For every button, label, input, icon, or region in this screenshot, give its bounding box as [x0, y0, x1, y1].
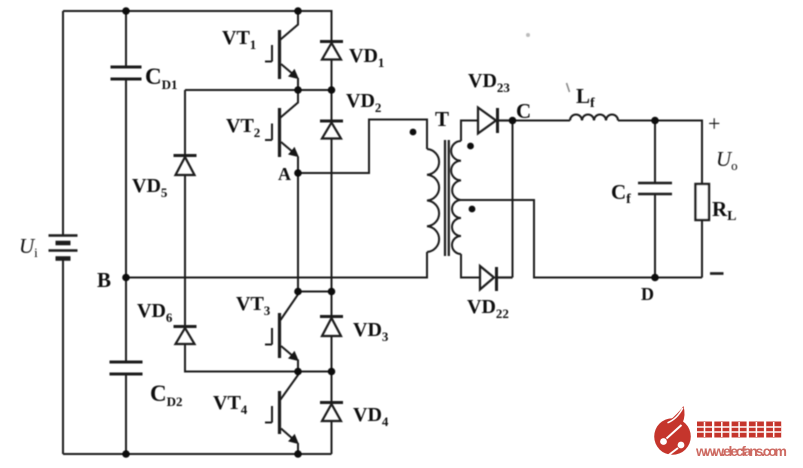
- svg-text:VD2: VD2: [346, 90, 381, 115]
- svg-text:www.elecfans.com: www.elecfans.com: [695, 443, 787, 459]
- svg-text:RL: RL: [712, 197, 737, 224]
- svg-text:+: +: [708, 111, 720, 136]
- svg-text:VT4: VT4: [213, 392, 248, 417]
- svg-text:VD23: VD23: [468, 70, 510, 95]
- svg-text:A: A: [278, 164, 291, 184]
- svg-text:VT2: VT2: [226, 115, 260, 140]
- svg-text:CD2: CD2: [150, 381, 183, 409]
- svg-text:VT3: VT3: [236, 293, 271, 318]
- svg-text:B: B: [97, 268, 111, 292]
- svg-text:Lf: Lf: [576, 84, 595, 111]
- svg-text:VD1: VD1: [349, 45, 384, 70]
- svg-text:CD1: CD1: [145, 64, 178, 92]
- svg-text:Ui: Ui: [19, 234, 38, 260]
- svg-text:Cf: Cf: [611, 180, 631, 207]
- svg-text:Uo: Uo: [716, 147, 738, 173]
- svg-text:VD5: VD5: [132, 175, 168, 200]
- svg-text:VD6: VD6: [137, 300, 173, 325]
- svg-text:VT1: VT1: [222, 27, 256, 52]
- svg-text:T: T: [435, 107, 449, 131]
- svg-text:VD4: VD4: [353, 404, 389, 429]
- svg-text:VD22: VD22: [467, 296, 509, 321]
- svg-text:VD3: VD3: [353, 319, 389, 344]
- svg-text:C: C: [516, 99, 531, 123]
- svg-text:D: D: [641, 284, 654, 304]
